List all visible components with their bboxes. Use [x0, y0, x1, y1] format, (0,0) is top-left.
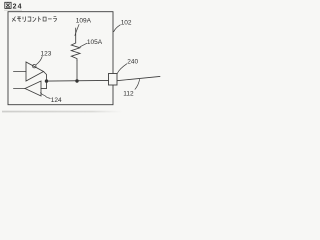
svg-text:102: 102 — [121, 19, 132, 26]
svg-text:24: 24 — [13, 4, 23, 11]
svg-text:112: 112 — [123, 91, 134, 98]
svg-text:123: 123 — [41, 51, 52, 58]
svg-text:105A: 105A — [87, 39, 103, 46]
svg-text:109A: 109A — [76, 18, 92, 25]
svg-text:240: 240 — [127, 59, 138, 66]
svg-text:124: 124 — [51, 97, 62, 104]
